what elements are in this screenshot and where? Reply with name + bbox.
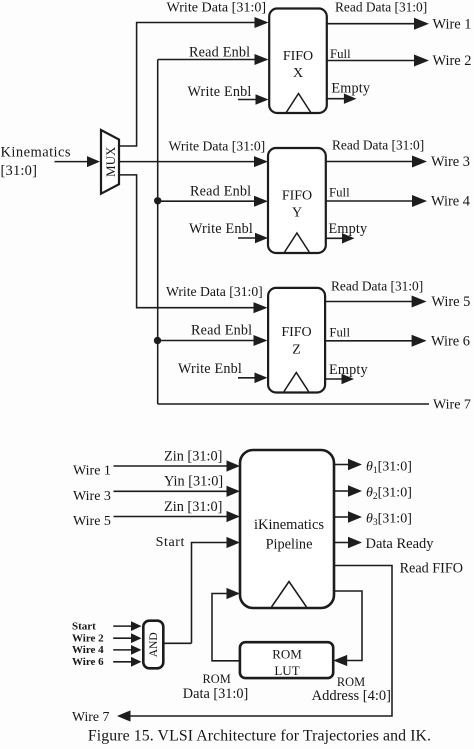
fifo X block xyxy=(269,9,327,114)
svg-text:Write Data [31:0]: Write Data [31:0] xyxy=(167,0,267,16)
wire theta3 output xyxy=(334,511,412,528)
gate AND xyxy=(143,621,163,669)
wire Read Enbl to FIFO Y xyxy=(158,196,268,207)
rom ROM LUT block xyxy=(240,642,333,678)
junction dot at FIFO Z read enbl xyxy=(154,337,161,344)
wire Wire 7 (top net) xyxy=(158,403,429,405)
svg-text:Empty: Empty xyxy=(331,81,371,97)
svg-text:Wire 3: Wire 3 xyxy=(73,489,111,504)
wire Read Enbl to FIFO Z xyxy=(158,335,268,346)
svg-text:Y: Y xyxy=(292,205,302,220)
svg-text:Read Enbl: Read Enbl xyxy=(191,323,252,339)
svg-text:AND: AND xyxy=(148,632,160,657)
svg-text:Data Ready: Data Ready xyxy=(366,536,435,552)
wire MUX out2 to FIFO Y Write Data xyxy=(119,156,268,167)
wire FIFO X Read Data to Wire 1 xyxy=(327,16,472,32)
svg-text:Wire 5: Wire 5 xyxy=(73,514,111,529)
svg-text:Start: Start xyxy=(156,535,185,550)
svg-text:Wire 3: Wire 3 xyxy=(431,154,470,170)
svg-text:LUT: LUT xyxy=(274,663,299,678)
wire Start to AND xyxy=(113,621,141,631)
wire Write Enbl stub FIFO Z xyxy=(238,373,268,384)
svg-text:θ2[31:0]: θ2[31:0] xyxy=(366,485,412,502)
svg-text:Wire 2: Wire 2 xyxy=(433,53,472,69)
svg-text:Yin [31:0]: Yin [31:0] xyxy=(164,474,223,490)
svg-text:X: X xyxy=(293,66,303,81)
svg-text:MUX: MUX xyxy=(103,146,118,177)
svg-text:Wire 4: Wire 4 xyxy=(431,194,470,210)
svg-text:Wire 6: Wire 6 xyxy=(431,334,470,350)
svg-text:Wire 7: Wire 7 xyxy=(433,398,471,413)
svg-text:Read Enbl: Read Enbl xyxy=(190,184,251,200)
svg-text:Wire 1: Wire 1 xyxy=(433,16,472,32)
wire Wire 2 to AND xyxy=(113,633,141,643)
svg-text:Figure 15. VLSI Architecture f: Figure 15. VLSI Architecture for Traject… xyxy=(88,728,431,745)
wire MUX out1 to FIFO X Write Data xyxy=(119,17,269,146)
svg-text:FIFO: FIFO xyxy=(281,325,311,340)
wire Read FIFO output down to Wire 7 xyxy=(117,566,392,722)
wire FIFO Y Full to Wire 4 xyxy=(326,194,470,210)
pipeline iKinematics Pipeline block xyxy=(240,450,334,608)
svg-text:Zin [31:0]: Zin [31:0] xyxy=(164,448,222,464)
svg-text:Z: Z xyxy=(292,343,301,358)
svg-text:Read Enbl: Read Enbl xyxy=(189,45,250,61)
svg-text:Pipeline: Pipeline xyxy=(266,537,313,553)
svg-text:Wire 7: Wire 7 xyxy=(72,709,109,724)
svg-text:Wire 2: Wire 2 xyxy=(72,632,104,644)
wire theta2 output xyxy=(334,485,412,502)
wire Wire 6 to AND xyxy=(113,657,141,667)
fifo Y block xyxy=(268,148,326,253)
svg-text:[31:0]: [31:0] xyxy=(1,163,38,179)
wire Write Enbl stub FIFO Y xyxy=(238,233,268,244)
svg-text:FIFO: FIFO xyxy=(283,49,313,64)
wire FIFO X Full to Wire 2 xyxy=(327,53,472,69)
svg-text:Empty: Empty xyxy=(329,362,369,378)
svg-text:iKinematics: iKinematics xyxy=(0,145,71,161)
wire Read Enbl vertical bus xyxy=(157,60,159,405)
wire Write Enbl stub FIFO X xyxy=(238,94,269,105)
wire FIFO Y Empty stub xyxy=(326,233,355,243)
svg-text:Data [31:0]: Data [31:0] xyxy=(183,686,249,702)
svg-text:iKinematics: iKinematics xyxy=(254,517,324,533)
svg-text:Address [4:0]: Address [4:0] xyxy=(312,688,391,704)
wire FIFO Z Read Data to Wire 5 xyxy=(325,294,470,310)
wire iKinematics to MUX xyxy=(55,156,101,167)
svg-text:Wire 5: Wire 5 xyxy=(431,294,470,310)
wire FIFO Y Read Data to Wire 3 xyxy=(326,154,470,170)
svg-text:ROM: ROM xyxy=(272,647,302,662)
svg-text:θ1[31:0]: θ1[31:0] xyxy=(366,460,412,477)
svg-text:Read FIFO: Read FIFO xyxy=(400,561,463,577)
svg-text:FIFO: FIFO xyxy=(282,188,312,203)
wire Wire 1 to pipeline xyxy=(114,460,241,471)
svg-text:ROM: ROM xyxy=(337,675,365,689)
svg-text:Write Enbl: Write Enbl xyxy=(178,361,242,377)
svg-text:Read Data [31:0]: Read Data [31:0] xyxy=(331,279,423,294)
svg-text:Wire 4: Wire 4 xyxy=(72,644,104,656)
wire Data Ready output xyxy=(334,536,434,552)
svg-text:θ3[31:0]: θ3[31:0] xyxy=(366,511,412,528)
wire ROM Data to pipeline xyxy=(212,588,240,661)
svg-text:Wire 1: Wire 1 xyxy=(73,464,111,479)
wire Wire 5 to pipeline xyxy=(114,511,241,522)
svg-text:Read Data [31:0]: Read Data [31:0] xyxy=(332,138,424,153)
svg-text:Write Data [31:0]: Write Data [31:0] xyxy=(166,284,263,299)
node iKinematics input label xyxy=(0,145,71,179)
svg-text:Wire 6: Wire 6 xyxy=(72,656,104,668)
wire Read Enbl to FIFO X xyxy=(158,54,269,65)
svg-text:Full: Full xyxy=(330,47,351,61)
svg-text:Write Data [31:0]: Write Data [31:0] xyxy=(169,138,266,153)
wire ROM Address from pipeline to ROM LUT xyxy=(333,591,362,666)
svg-text:Zin [31:0]: Zin [31:0] xyxy=(164,499,222,515)
wire FIFO X Empty stub xyxy=(327,94,357,104)
wire FIFO Z Empty stub xyxy=(325,374,354,384)
wire Start to pipeline and down to AND output node xyxy=(192,537,241,643)
svg-text:Read Data [31:0]: Read Data [31:0] xyxy=(335,0,427,15)
svg-text:Full: Full xyxy=(329,325,350,339)
wire Wire 3 to pipeline xyxy=(114,486,241,497)
svg-text:Start: Start xyxy=(72,620,96,632)
svg-text:Full: Full xyxy=(329,185,350,199)
wire theta1 output xyxy=(334,459,412,476)
wire MUX out3 to FIFO Z Write Data xyxy=(119,175,268,313)
svg-text:ROM: ROM xyxy=(203,672,231,686)
wire Wire 4 to AND xyxy=(113,645,141,655)
svg-text:Empty: Empty xyxy=(329,221,369,237)
mux MUX xyxy=(101,130,119,194)
fifo Z block xyxy=(268,288,325,393)
svg-text:Write Enbl: Write Enbl xyxy=(188,84,252,100)
wire AND output to Start node xyxy=(163,642,191,644)
svg-text:Write Enbl: Write Enbl xyxy=(189,221,253,237)
wire FIFO Z Full to Wire 6 xyxy=(325,334,470,350)
junction dot at FIFO Y read enbl xyxy=(154,197,161,204)
